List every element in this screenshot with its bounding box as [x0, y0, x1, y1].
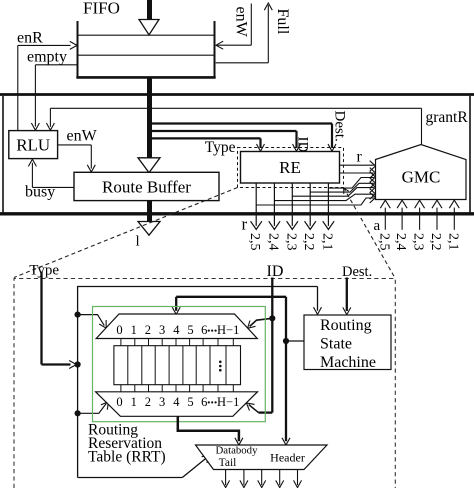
svg-text:4: 4 [173, 323, 180, 337]
svg-text:enW: enW [233, 7, 250, 38]
svg-text:Route Buffer: Route Buffer [102, 177, 191, 196]
svg-text:0: 0 [116, 323, 122, 337]
svg-text:2,2: 2,2 [301, 233, 316, 251]
svg-text:2,4: 2,4 [393, 233, 408, 251]
svg-text:H−1: H−1 [217, 323, 239, 337]
svg-text:r: r [357, 149, 363, 166]
svg-text:RLU: RLU [16, 136, 50, 155]
svg-text:H−1: H−1 [217, 395, 239, 409]
svg-text:RE: RE [279, 158, 301, 177]
svg-text:a: a [374, 218, 381, 234]
svg-text:enR: enR [17, 30, 43, 47]
svg-text:2,4: 2,4 [265, 233, 280, 251]
svg-text:Table (RRT): Table (RRT) [88, 449, 166, 466]
svg-text:ID: ID [295, 137, 311, 153]
svg-text:Routing: Routing [320, 317, 372, 334]
svg-text:Header: Header [270, 451, 305, 465]
svg-text:2: 2 [145, 395, 151, 409]
svg-text:2,1: 2,1 [445, 233, 460, 251]
svg-text:3: 3 [159, 395, 165, 409]
svg-text:5: 5 [187, 323, 193, 337]
svg-text:Databody: Databody [216, 445, 259, 457]
svg-text:ID: ID [267, 263, 284, 280]
svg-text:0: 0 [116, 395, 122, 409]
svg-text:Type: Type [205, 139, 236, 156]
svg-text:2,5: 2,5 [247, 233, 262, 251]
svg-text:State: State [320, 336, 352, 353]
svg-text:Dest.: Dest. [332, 111, 348, 142]
svg-text:6: 6 [201, 323, 207, 337]
svg-text:enW: enW [67, 128, 98, 145]
svg-text:empty: empty [27, 49, 67, 66]
svg-text:Tail: Tail [219, 457, 237, 469]
svg-text:4: 4 [173, 395, 180, 409]
svg-text:GMC: GMC [402, 168, 441, 187]
svg-text:busy: busy [25, 184, 55, 201]
svg-text:2,1: 2,1 [319, 233, 334, 251]
svg-text:Machine: Machine [320, 354, 376, 371]
svg-text:3: 3 [159, 323, 165, 337]
svg-text:r: r [242, 215, 248, 234]
svg-text:Full: Full [274, 9, 291, 35]
svg-text:2,3: 2,3 [283, 233, 298, 251]
svg-text:1: 1 [131, 323, 137, 337]
svg-text:Type: Type [29, 263, 59, 279]
svg-text:6: 6 [201, 395, 207, 409]
svg-text:2,2: 2,2 [428, 233, 443, 251]
svg-text:2,3: 2,3 [411, 233, 426, 251]
svg-text:l: l [136, 234, 140, 250]
svg-text:5: 5 [187, 395, 193, 409]
svg-text:grantR: grantR [426, 109, 469, 126]
svg-text:FIFO: FIFO [83, 0, 120, 18]
svg-text:2,5: 2,5 [376, 233, 391, 251]
svg-text:2: 2 [145, 323, 151, 337]
svg-text:1: 1 [131, 395, 137, 409]
